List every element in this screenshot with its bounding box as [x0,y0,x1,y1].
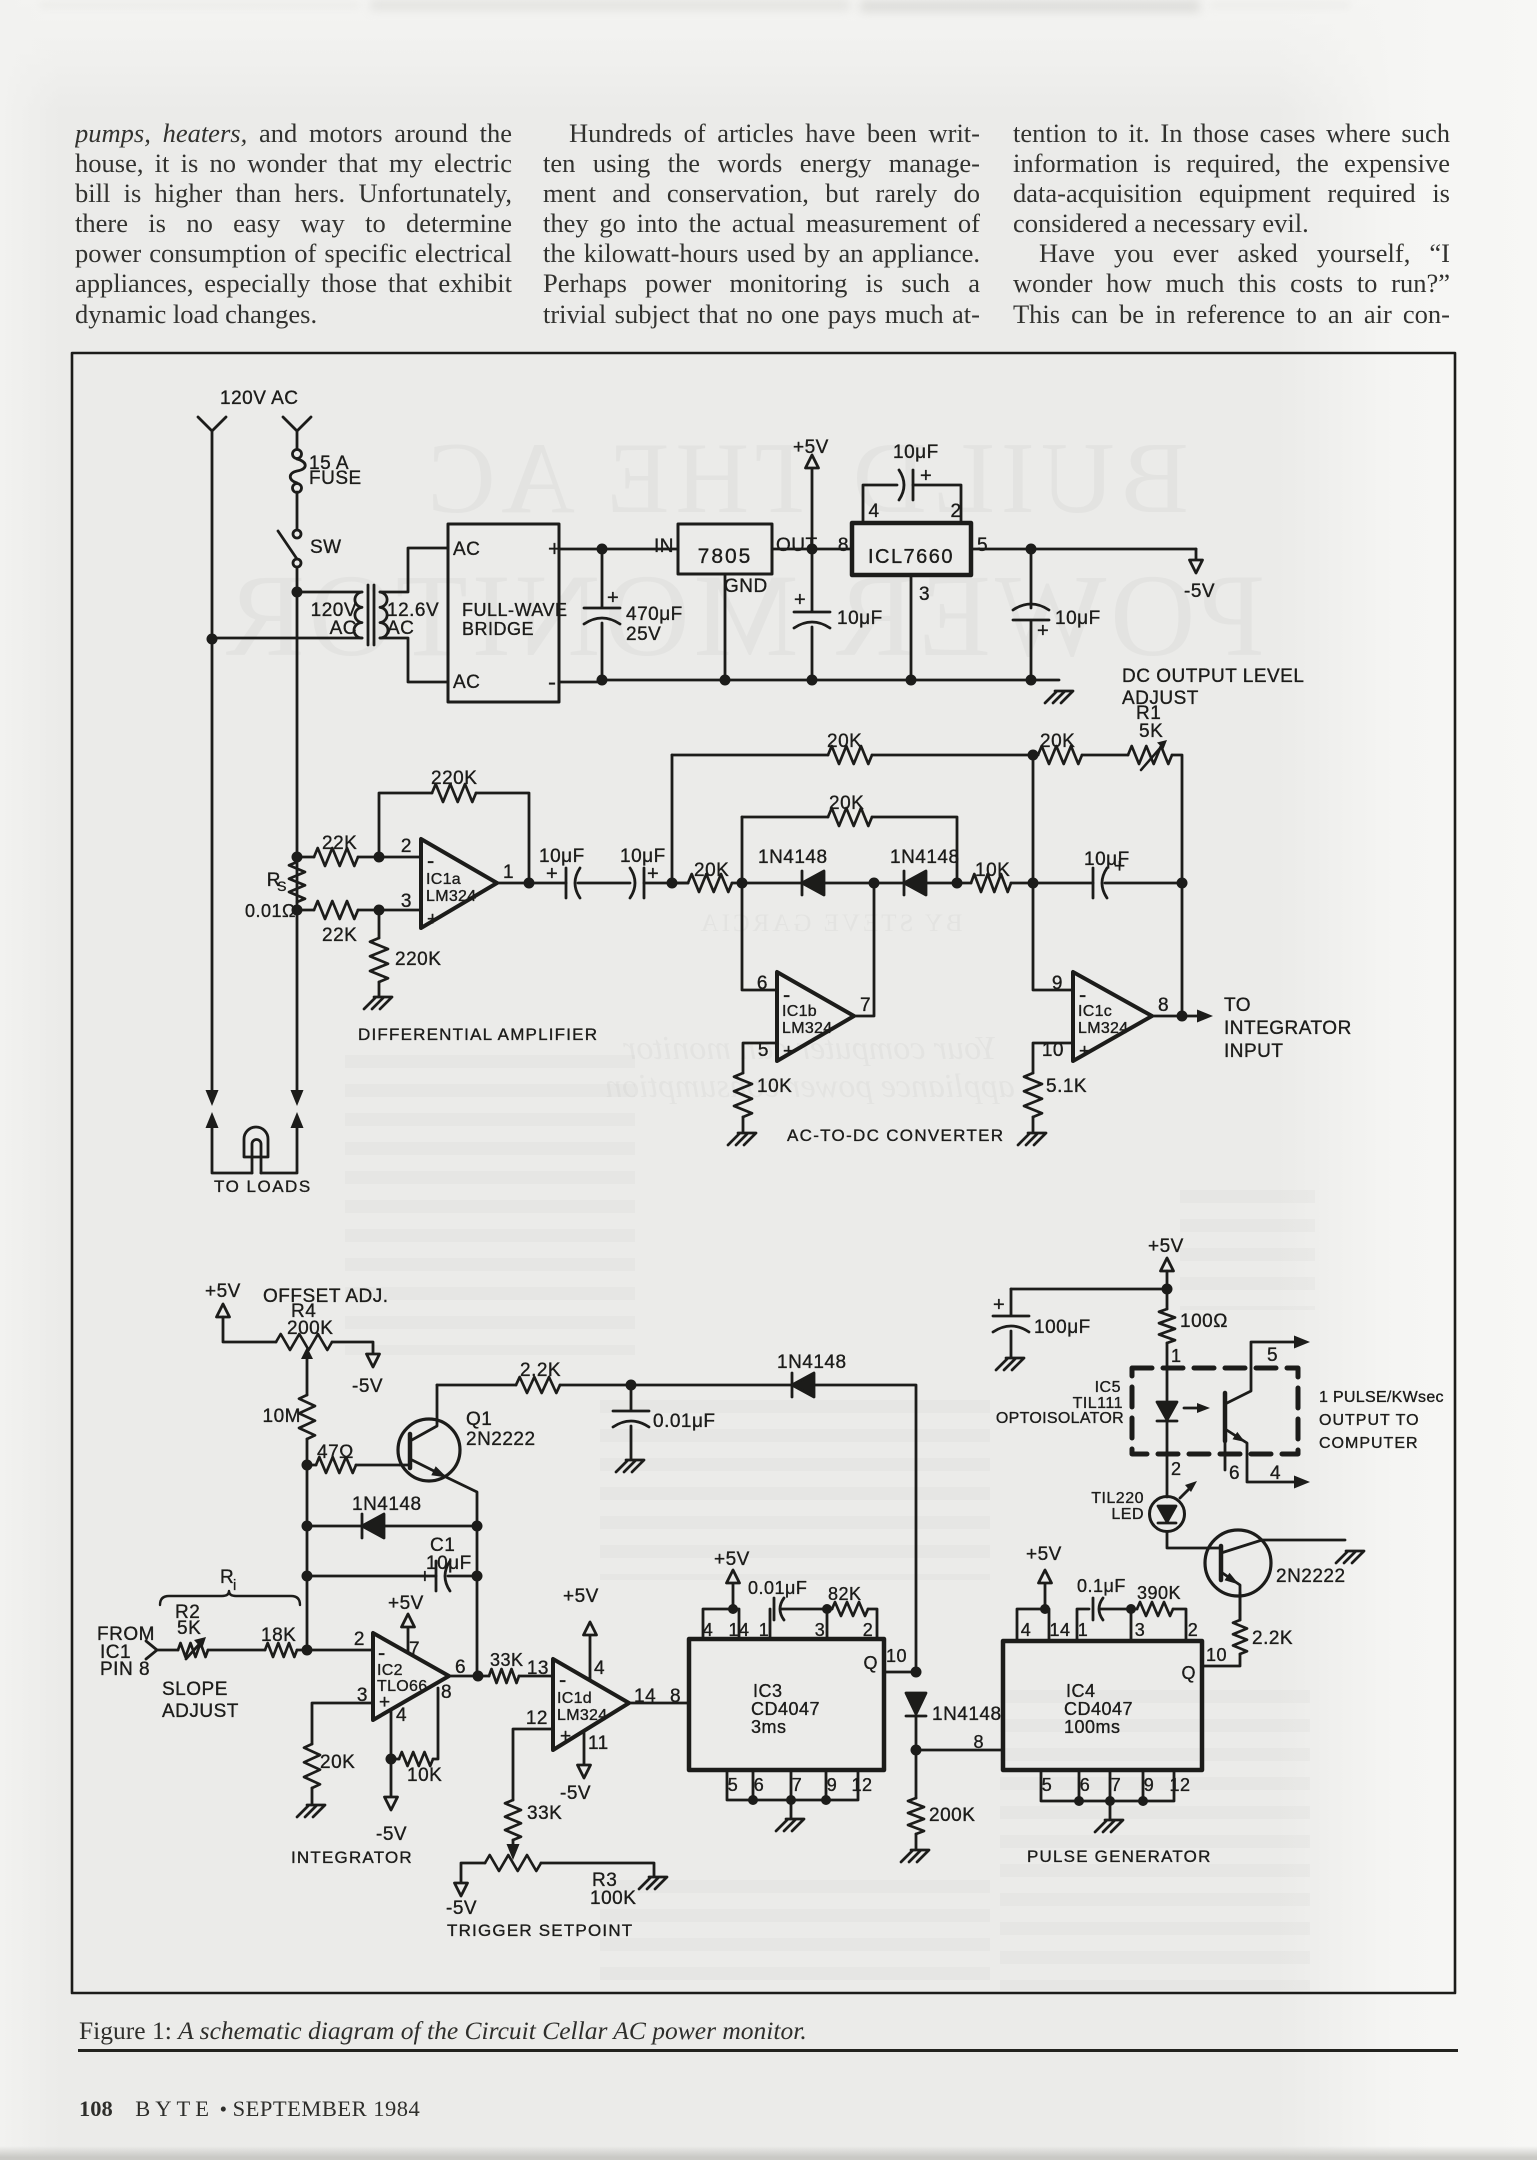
lamp load symbol [244,1127,268,1157]
svg-text:2N2222: 2N2222 [1276,1566,1346,1587]
wire 7805 GND pin [724,574,727,680]
svg-text:4: 4 [868,501,879,522]
supply +5V arrow [811,469,814,549]
svg-text:200K: 200K [287,1318,333,1339]
ground (IC3) [776,1819,804,1831]
svg-text:8: 8 [973,1732,984,1752]
svg-text:8: 8 [838,535,849,556]
resistor 20K (top rail, left) [672,754,828,757]
svg-text:+5V: +5V [388,1593,424,1614]
wire load feed arrows [206,1090,219,1106]
svg-text:3: 3 [401,891,412,912]
supply -5V (IC2 pin4) [390,1759,393,1797]
node 10M/47ohm junction [302,1460,313,1471]
svg-text:INTEGRATOR: INTEGRATOR [1224,1018,1352,1039]
resistor 18K [265,1643,297,1657]
svg-text:ICL7660: ICL7660 [868,546,954,568]
svg-text:BRIDGE: BRIDGE [462,619,534,639]
resistor 390K (IC4 timing) [1126,1604,1136,1614]
svg-text:+: + [379,1692,391,1713]
wire between coupling caps [578,882,630,885]
pin 5 output arrow [1294,1336,1310,1349]
ground (supply rail) [1045,691,1073,703]
supply -5V (IC1d pin11) [583,1732,586,1764]
svg-text:8: 8 [441,1682,452,1703]
svg-text:0.01μF: 0.01μF [653,1411,716,1432]
supply +5V (IC1d pin4) [589,1635,592,1680]
svg-text:AC: AC [387,618,414,639]
svg-text:9: 9 [1052,973,1063,994]
svg-text:IC1a: IC1a [426,871,461,888]
resistor 10K (IC1b pin5 to ground) [743,1043,777,1073]
svg-text:12: 12 [851,1775,872,1795]
svg-text:INPUT: INPUT [1224,1041,1284,1062]
wire 120V AC neutral lead (right) with source arrow [283,417,311,449]
wire IC3 ground pins 5,6,7,9,12 [727,1770,858,1800]
op-amp IC2 TLO66 [373,1633,449,1720]
svg-text:+5V: +5V [563,1586,599,1607]
resistor 220K feedback [379,793,432,857]
resistor 100 ohm [1159,1309,1175,1343]
resistor 20K (top rail, right) [1038,746,1082,764]
capacitor 0.01uF [613,1385,649,1459]
svg-text:20K: 20K [827,731,862,752]
svg-text:3: 3 [1135,1620,1146,1640]
resistor 2.2K (Q1 collector) [437,1384,516,1387]
light arrow [1184,1407,1202,1410]
svg-text:10: 10 [886,1646,907,1666]
capacitor 100uF [993,1289,1029,1357]
LED (inside opto) [1157,1402,1177,1420]
svg-text:IC1c: IC1c [1078,1003,1112,1020]
svg-text:-: - [427,848,435,873]
ground (200K) [901,1850,929,1862]
svg-text:2: 2 [354,1629,365,1650]
svg-text:10μF: 10μF [620,846,666,867]
svg-text:6: 6 [754,1775,765,1795]
wire offset node riser [306,1465,309,1650]
svg-text:IC3: IC3 [753,1681,783,1701]
full-wave bridge rectifier [448,524,559,702]
svg-text:10μF: 10μF [426,1553,472,1574]
svg-text:7805: 7805 [698,545,753,568]
node 100uF tap [1162,1284,1173,1295]
svg-text:12: 12 [1169,1775,1190,1795]
supply +5V (IC2 pin7) [407,1627,410,1652]
svg-text:AC: AC [330,618,357,639]
svg-text:SLOPE: SLOPE [162,1679,228,1700]
wire Q1 emitter riser [476,1526,479,1676]
wire ICL7660 pin 3 to ground rail [910,575,913,680]
svg-text:220K: 220K [431,768,477,789]
supply -5V arrow [1195,549,1198,559]
svg-text:FUSE: FUSE [309,468,362,489]
svg-text:2.2K: 2.2K [1252,1628,1293,1649]
svg-text:Q: Q [863,1653,878,1673]
svg-text:+: + [560,1726,572,1747]
wire IC1b output to diode node [854,883,874,1016]
ground (0.01uF) [616,1460,644,1472]
capacitor 10uF (7805 output) [794,549,830,680]
svg-text:+5V: +5V [1026,1544,1062,1565]
svg-text:5K: 5K [1139,721,1163,742]
svg-text:PIN 8: PIN 8 [100,1659,150,1680]
node neutral/primary junction [207,634,218,645]
resistor RS 0.01 ohm shunt [292,852,303,863]
resistor 10K (to IC1c) [971,874,1011,892]
svg-text:1N4148: 1N4148 [758,847,828,868]
optoisolator IC5 TIL111 dashed box [1132,1368,1298,1454]
ground (IC1c pin10) [1018,1133,1046,1145]
resistor 47 ohm [307,1464,316,1467]
svg-text:4: 4 [1270,1463,1281,1484]
node pin3 junction [374,905,385,916]
svg-text:6: 6 [1080,1775,1091,1795]
LED TIL220 [1150,1497,1185,1532]
ground (2N2222 collector) [1336,1551,1364,1563]
svg-text:IC5: IC5 [1095,1379,1121,1396]
wire input node to IC2 pin 2 [307,1649,373,1652]
node -5V filter tap [1026,544,1037,555]
svg-text:CD4047: CD4047 [751,1699,820,1719]
wire IC4 ground pins 5,6,7,9,12 [1041,1770,1174,1801]
svg-text:GND: GND [724,576,768,597]
svg-text:11: 11 [588,1733,609,1754]
svg-text:DC OUTPUT LEVEL: DC OUTPUT LEVEL [1122,666,1304,687]
wire switch to junction [296,567,299,592]
svg-text:IC2: IC2 [377,1662,403,1679]
svg-text:2: 2 [1171,1459,1182,1479]
svg-text:2: 2 [1188,1620,1199,1640]
svg-text:OPTOISOLATOR: OPTOISOLATOR [996,1410,1124,1427]
resistor 20K (IC2 pin3) [312,1703,373,1744]
svg-text:Q1: Q1 [466,1409,492,1430]
svg-text:33K: 33K [527,1803,562,1824]
svg-text:5: 5 [1267,1345,1278,1366]
svg-text:2: 2 [401,836,412,857]
resistor 5.1K (IC1c pin10 to ground) [1033,1043,1073,1073]
supply +5V (IC3) [727,1570,740,1583]
svg-text:1N4148: 1N4148 [352,1494,422,1515]
svg-text:0.01Ω: 0.01Ω [245,901,296,921]
svg-text:5K: 5K [177,1618,201,1639]
wire IC4 pins 4,14 to +5V [1017,1609,1049,1641]
svg-text:-5V: -5V [560,1783,591,1804]
resistor 33K (IC2 to IC1d) [489,1669,519,1683]
svg-text:5.1K: 5.1K [1046,1076,1087,1097]
svg-text:10K: 10K [975,860,1010,881]
supply +5V (IC4) [1039,1570,1052,1583]
svg-text:25V: 25V [626,624,661,645]
svg-text:2N2222: 2N2222 [466,1429,536,1450]
svg-text:20K: 20K [829,793,864,814]
svg-text:+5V: +5V [205,1281,241,1302]
resistor 20K (input) [672,882,688,885]
svg-text:12: 12 [526,1708,548,1729]
wire IC1d output to IC3 pin8 [629,1702,689,1705]
switch SW [293,530,301,538]
svg-text:1N4148: 1N4148 [932,1704,1002,1725]
svg-text:10K: 10K [757,1076,792,1097]
svg-text:10M: 10M [263,1406,301,1427]
op-amp IC1c LM324 [1073,972,1152,1061]
svg-text:4: 4 [594,1658,605,1679]
wire IC1d pin12 to trigger divider [513,1729,553,1800]
svg-text:LED: LED [1111,1506,1144,1523]
svg-text:7: 7 [409,1639,420,1660]
node output rail junction [1177,878,1188,889]
transistor Q1 2N2222 [398,1419,460,1481]
svg-text:4: 4 [1021,1620,1032,1640]
supply -5V (offset adj) [367,1354,380,1367]
wire input chevron [146,1641,157,1659]
node GND pin to rail [720,675,731,686]
transistor 2N2222 (LED driver) [1205,1530,1271,1596]
svg-text:LM324: LM324 [557,1707,607,1724]
svg-text:5: 5 [728,1775,739,1795]
resistor 22K (non-inverting input) [297,909,314,912]
svg-text:10μF: 10μF [893,442,939,463]
resistor 22K (inverting input) [297,856,314,859]
svg-text:IC1d: IC1d [557,1690,592,1707]
svg-text:100Ω: 100Ω [1180,1311,1228,1332]
svg-text:+: + [794,589,806,611]
svg-text:+: + [1037,620,1049,642]
node converter input [667,878,678,889]
svg-text:S: S [277,878,287,894]
fuse F1 15 A [293,450,302,459]
ground (IC2 pin3) [297,1805,325,1817]
svg-text:OUTPUT TO: OUTPUT TO [1319,1412,1420,1429]
svg-text:33K: 33K [490,1650,524,1670]
svg-text:18K: 18K [261,1625,296,1646]
wire cap to converter input node [644,882,688,885]
svg-text:LM324: LM324 [426,888,476,905]
svg-text:0.1μF: 0.1μF [1077,1576,1126,1596]
svg-text:-5V: -5V [1184,581,1215,602]
svg-text:SW: SW [310,537,342,558]
wire output to coupling caps [497,882,566,885]
schematic frame [72,353,1455,1993]
node pin6/diode1 junction [737,878,748,889]
wire to IC4 pin 8 [916,1749,1003,1752]
svg-text:CD4047: CD4047 [1064,1699,1133,1719]
diode 1N4148 (left) [801,871,804,895]
node integrator input [302,1645,313,1656]
svg-text:470μF: 470μF [626,604,683,625]
svg-text:10μF: 10μF [1084,849,1130,870]
resistor 10M [299,1395,315,1439]
wire 7805 OUT to ICL7660 pin 8 [772,548,852,551]
svg-text:7: 7 [1111,1775,1122,1795]
svg-text:47Ω: 47Ω [317,1442,354,1463]
resistor 200K (pulse pulldown) [915,1750,918,1798]
ground (IC1b pin5) [728,1133,756,1145]
svg-text:1: 1 [759,1620,770,1640]
wire primary bottom to neutral [212,637,362,640]
ground (100uF) [996,1358,1024,1370]
svg-text:6: 6 [757,973,768,994]
ground (R3) [639,1877,667,1889]
svg-text:-: - [548,669,557,696]
svg-text:+: + [427,909,439,930]
svg-text:10: 10 [1206,1645,1227,1665]
svg-text:FULL-WAVE: FULL-WAVE [462,600,568,620]
svg-text:-5V: -5V [352,1376,383,1397]
ground (IC4) [1095,1820,1123,1832]
svg-text:1N4148: 1N4148 [890,847,960,868]
svg-text:0.01μF: 0.01μF [748,1578,807,1598]
svg-text:1 PULSE/KWsec: 1 PULSE/KWsec [1319,1389,1444,1406]
wire bridge + output to 7805 IN [559,548,678,551]
wire IC1b pin6 riser [742,817,777,990]
svg-text:100K: 100K [590,1888,636,1909]
svg-text:+: + [1079,1041,1091,1062]
svg-text:220K: 220K [395,949,441,970]
potentiometer R3 100K trigger setpoint [507,1844,520,1860]
svg-text:PULSE GENERATOR: PULSE GENERATOR [1027,1847,1212,1866]
svg-text:-5V: -5V [446,1898,477,1919]
wire 120V AC hot lead (left) with source arrow [198,417,226,1093]
resistor 33K (trigger) [505,1800,521,1840]
svg-text:20K: 20K [694,860,729,881]
wire ground rail [559,680,1059,682]
svg-text:7: 7 [860,995,871,1016]
node pin2 junction [374,852,385,863]
svg-text:5: 5 [977,535,988,556]
svg-text:+: + [607,587,619,609]
wire junction down to loads [296,592,299,1093]
svg-text:+: + [783,1041,795,1062]
svg-text:8: 8 [1158,995,1169,1016]
svg-text:AC: AC [453,672,480,693]
IC3 CD4047 3ms [689,1639,884,1770]
node top rail / IC1c input riser [1028,750,1039,761]
svg-text:OFFSET ADJ.: OFFSET ADJ. [263,1286,389,1307]
svg-text:100μF: 100μF [1034,1317,1091,1338]
svg-text:6: 6 [1229,1463,1240,1484]
op-amp IC1b LM324 [777,972,854,1061]
svg-text:10K: 10K [407,1765,442,1786]
svg-text:-: - [559,1667,567,1692]
diode 1N4148 (right) [903,871,906,895]
svg-text:+: + [920,465,932,487]
svg-text:Q: Q [1181,1663,1196,1683]
capacitor 0.01uF (IC3 timing) [769,1609,772,1639]
svg-text:1: 1 [503,862,514,883]
wire IC1c output / to integrator arrow [1152,1015,1197,1018]
transformer T1 120V:12.6V [354,592,362,638]
wire riser to gain rail [671,755,674,883]
svg-text:9: 9 [827,1775,838,1795]
ghost bleed-through from reverse page [355,420,1255,537]
capacitor 0.1uF (IC4 timing) [1077,1609,1089,1641]
svg-text:100ms: 100ms [1064,1717,1121,1737]
svg-text:LM324: LM324 [782,1020,832,1037]
svg-text:COMPUTER: COMPUTER [1319,1435,1419,1452]
svg-text:INTEGRATOR: INTEGRATOR [291,1848,413,1867]
svg-text:22K: 22K [322,833,357,854]
wire LED to driver base [1167,1532,1221,1548]
svg-text:IC1b: IC1b [782,1003,817,1020]
svg-text:9: 9 [1144,1775,1155,1795]
svg-text:7: 7 [792,1775,803,1795]
resistor 10K (IC2 offset null) [399,1752,433,1766]
svg-text:5: 5 [1042,1775,1053,1795]
node op-amp 1 output [524,878,535,889]
IC ICL7660 [852,523,971,575]
svg-text:IN: IN [654,536,674,557]
svg-text:4: 4 [396,1705,407,1726]
svg-text:DIFFERENTIAL AMPLIFIER: DIFFERENTIAL AMPLIFIER [358,1025,598,1044]
capacitor 10uF (charge pump, pins 4-2) [863,485,897,523]
diode 1N4148 (vertical, pulse) [906,1693,926,1714]
svg-text:120V AC: 120V AC [220,388,299,409]
svg-text:+: + [993,1294,1005,1316]
wire IC3 pins 4,14 to +5V [703,1609,739,1639]
wire IC2 output [449,1675,489,1678]
svg-text:10μF: 10μF [837,608,883,629]
svg-text:AC: AC [453,539,480,560]
svg-text:1: 1 [1171,1346,1182,1366]
svg-text:TO: TO [1224,995,1251,1016]
svg-text:TRIGGER SETPOINT: TRIGGER SETPOINT [447,1921,633,1940]
node diode2/rail2 junction [952,878,963,889]
resistor 2.2K (LED driver base) [1233,1620,1247,1654]
svg-text:2: 2 [863,1620,874,1640]
pin 4 output arrow [1294,1476,1310,1489]
svg-text:82K: 82K [828,1584,862,1604]
diode 1N4148 (to pulse gen) [791,1373,794,1397]
resistor 82K (IC3 timing) [822,1604,832,1614]
svg-text:13: 13 [527,1658,549,1679]
op-amp IC1a LM324 [421,839,497,928]
wire secondary bottom to bridge [380,638,448,682]
node IC1c pin9 junction [1028,878,1039,889]
svg-text:1: 1 [1078,1620,1089,1640]
regulator U1 7805 [678,524,772,574]
ground (220K) [364,997,392,1009]
potentiometer R1 5K [1128,746,1172,764]
svg-text:1N4148: 1N4148 [777,1352,847,1373]
capacitor 10uF (averaging) [1092,868,1095,898]
svg-text:LM324: LM324 [1078,1020,1128,1037]
svg-text:i: i [233,1577,237,1594]
wire fuse to switch [296,492,299,530]
svg-text:390K: 390K [1137,1583,1181,1603]
wire junction to transformer primary [297,591,362,594]
svg-text:2.2K: 2.2K [520,1360,561,1381]
supply -5V (R3) [455,1883,468,1896]
svg-text:3: 3 [815,1620,826,1640]
op-amp IC1d LM324 [553,1659,629,1750]
potentiometer R4 200K [276,1334,332,1350]
node +5V tap [807,544,818,555]
svg-text:+5V: +5V [714,1549,750,1570]
svg-text:14: 14 [1049,1620,1070,1640]
diode 1N4148 (Q1 base clamp) [302,1521,313,1532]
wire ICL7660 pin 5 output [971,548,1196,551]
svg-text:10μF: 10μF [1055,608,1101,629]
node diode junction / IC1b output riser [869,878,880,889]
svg-text:22K: 22K [322,925,357,946]
capacitor 470uF 25V [584,549,620,680]
svg-text:+5V: +5V [1148,1236,1184,1257]
resistor 220K to ground [378,910,381,938]
IC4 CD4047 100ms [1003,1641,1202,1770]
svg-text:IC4: IC4 [1066,1681,1096,1701]
svg-text:TO LOADS: TO LOADS [214,1177,312,1196]
